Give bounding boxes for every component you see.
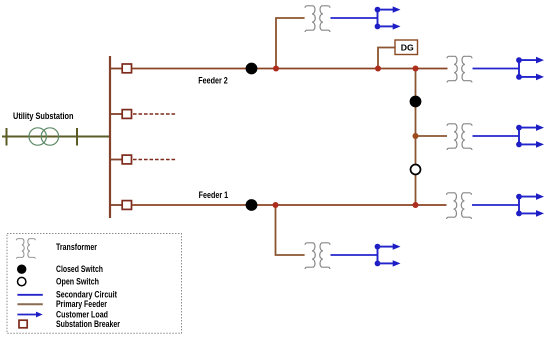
open switch on tie line xyxy=(411,165,421,175)
substation breaker 2 xyxy=(122,110,131,119)
wire: utility incoming line xyxy=(2,136,110,138)
legend open switch symbol xyxy=(18,277,26,285)
customer loads at T1 xyxy=(375,6,401,29)
customer loads at T4 xyxy=(516,193,544,216)
legend box xyxy=(7,234,182,334)
utility terminal bar (right) xyxy=(76,128,78,146)
wire: secondary circuit from T3 xyxy=(473,135,520,137)
svg-text:Transformer: Transformer xyxy=(56,242,97,252)
junction node: Feeder2 / tie line xyxy=(413,66,419,72)
svg-text:Utility Substation: Utility Substation xyxy=(13,111,74,121)
svg-text:Feeder 1: Feeder 1 xyxy=(199,190,229,200)
junction node: Feeder2 / DG tap xyxy=(375,66,381,72)
legend customer load symbol xyxy=(17,314,36,316)
svg-text:Open Switch: Open Switch xyxy=(56,277,99,287)
legend transformer symbol xyxy=(16,239,35,259)
wire: lateral from Feeder 2 up to top transformer xyxy=(276,18,305,69)
utility terminal bar (left) xyxy=(6,128,8,146)
legend closed switch symbol xyxy=(17,265,26,274)
substation breaker 1 xyxy=(122,64,131,73)
wire: stub bus to breaker 4 (Feeder 1) xyxy=(110,204,123,206)
substation transformer circle 2 xyxy=(41,128,58,145)
svg-text:DG: DG xyxy=(401,43,414,52)
closed switch on Feeder 1 xyxy=(246,199,258,211)
wire: stub bus to breaker 1 (Feeder 2) xyxy=(110,68,123,70)
transformer T2 (Feeder 2 right) xyxy=(447,56,472,82)
junction node: Feeder2 / top lateral xyxy=(273,66,279,72)
substation bus xyxy=(109,56,111,218)
wire: secondary circuit from T2 xyxy=(473,68,520,70)
junction node: Feeder1 / bottom lateral xyxy=(273,202,279,208)
svg-text:Closed Switch: Closed Switch xyxy=(56,264,103,274)
closed switch on Feeder 2 xyxy=(246,63,258,75)
wire: secondary circuit from T5 xyxy=(331,254,378,256)
junction node: Feeder1 / tie line xyxy=(413,202,419,208)
substation transformer circle 1 xyxy=(29,128,46,145)
transformer T5 (bottom lateral) xyxy=(305,243,330,269)
svg-text:Secondary Circuit: Secondary Circuit xyxy=(56,290,117,300)
wire: tie line between Feeder 2 and Feeder 1 xyxy=(415,69,417,206)
svg-text:Substation Breaker: Substation Breaker xyxy=(56,319,120,329)
transformer T4 (Feeder 1 right) xyxy=(447,193,472,219)
legend secondary circuit symbol xyxy=(17,294,42,296)
wire: secondary circuit from T4 xyxy=(472,204,519,206)
substation breaker 3 xyxy=(122,155,131,164)
wire: lateral from Feeder 1 down to bottom transformer xyxy=(276,205,305,255)
wire: open feeder stub (dashed) from breaker 2 xyxy=(133,113,176,115)
wire: Feeder 2 primary line xyxy=(132,68,448,70)
wire: secondary circuit from T1 xyxy=(331,17,378,19)
svg-text:Feeder 2: Feeder 2 xyxy=(198,75,228,85)
svg-text:Customer Load: Customer Load xyxy=(56,309,108,319)
wire: stub bus to breaker 3 xyxy=(110,159,123,161)
svg-text:Primary Feeder: Primary Feeder xyxy=(56,299,107,309)
wire: middle lateral to transformer xyxy=(416,135,448,137)
wire: open feeder stub (dashed) from breaker 3 xyxy=(133,159,176,161)
wire: DG tap from Feeder 2 xyxy=(378,48,395,69)
DG box xyxy=(395,40,418,55)
customer loads at T5 xyxy=(375,243,401,266)
legend substation breaker symbol xyxy=(19,320,27,328)
transformer T1 (top lateral) xyxy=(305,6,330,32)
transformer T3 (middle lateral) xyxy=(447,124,472,150)
customer loads at T2 xyxy=(516,57,544,80)
legend primary feeder symbol xyxy=(17,303,42,305)
wire: stub bus to breaker 2 xyxy=(110,113,123,115)
substation breaker 4 xyxy=(122,201,131,210)
closed switch on tie line xyxy=(410,96,422,108)
customer loads at T3 xyxy=(516,124,544,147)
wire: Feeder 1 primary line xyxy=(132,204,447,206)
junction node: tie line / middle lateral xyxy=(413,133,419,139)
